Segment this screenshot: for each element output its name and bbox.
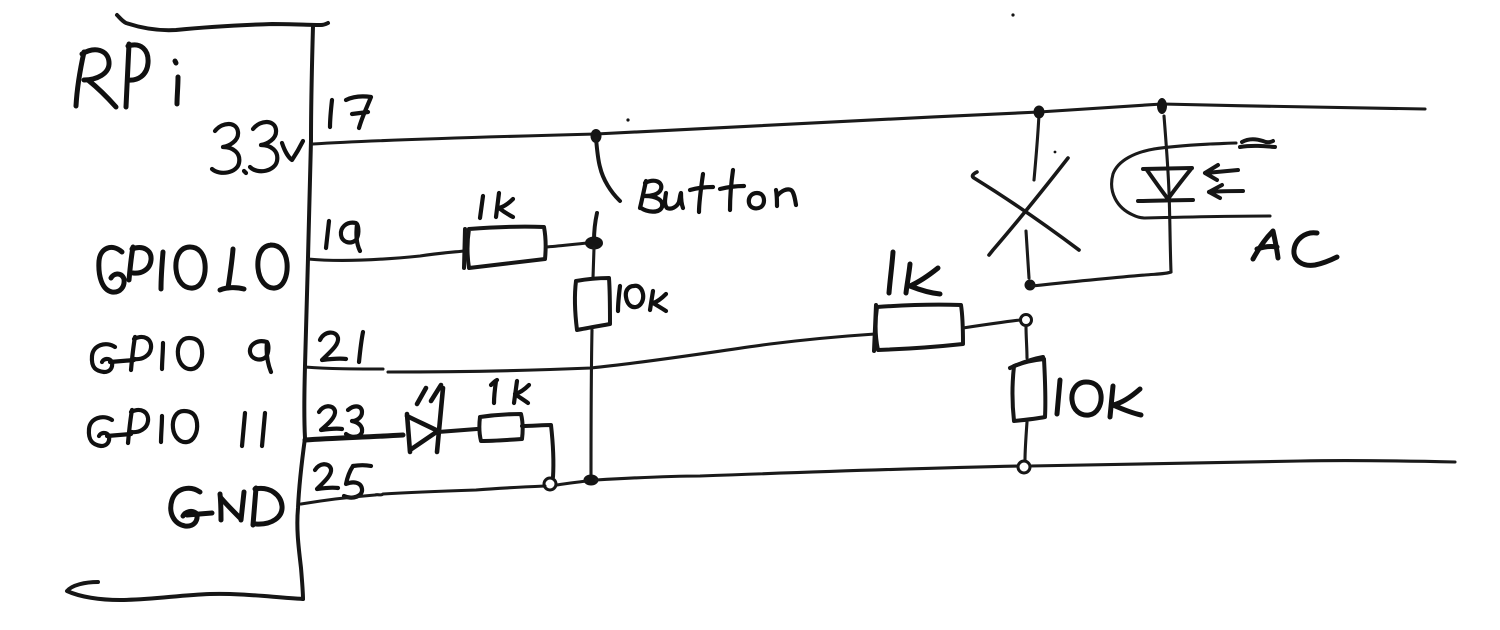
wire node to R2 — [593, 248, 594, 278]
wire elbow node to opto — [1032, 272, 1171, 286]
pin number 23 — [319, 406, 362, 437]
wire X branch from 3.3V — [1034, 114, 1039, 180]
label 10K (R5) — [1057, 380, 1141, 417]
button SW1 — [594, 138, 620, 241]
wire GPIO10 pin19 to R1 — [308, 251, 464, 260]
arrow 1 — [1205, 165, 1238, 180]
junction dot R2/GND — [584, 475, 599, 486]
RPi box outline — [67, 15, 328, 600]
LED inside opto — [1138, 168, 1193, 201]
ink speck — [1011, 13, 1014, 16]
resistor R4 1k — [874, 305, 963, 351]
wire R3 down to GND — [522, 425, 553, 477]
label 1k (R4) — [889, 252, 940, 294]
wire 3.3V pin17 rail — [313, 134, 596, 144]
pin number 19 — [326, 221, 360, 251]
junction dot X branch — [1025, 280, 1036, 291]
junction dot 3.3V/button — [591, 129, 602, 143]
resistor R5 10k — [1010, 357, 1045, 421]
ink speck — [1054, 151, 1057, 154]
label GPIO 9 — [92, 337, 271, 372]
label GPIO 10 — [99, 245, 287, 292]
wire 3.3V rail right end — [1162, 104, 1425, 109]
wire GND rail far right — [1030, 461, 1455, 466]
pin number 17 — [330, 96, 371, 128]
arrow 2 — [1209, 185, 1243, 198]
label GND — [171, 488, 282, 526]
wire node circle to R5 — [1026, 326, 1027, 358]
wire GPIO11 pin23 — [305, 435, 403, 440]
wire R5 to GND rail — [1025, 422, 1027, 460]
label RPi — [76, 44, 178, 107]
junction dot node button/R1/R2 — [585, 237, 603, 250]
wire GPIO9 pin21 stub — [305, 367, 383, 369]
wire GND rail mid — [557, 481, 586, 485]
cross-out X — [973, 158, 1079, 255]
pin number 25 — [315, 464, 371, 497]
node open circle GPIO11/GND — [544, 478, 556, 490]
label 1k (R1) — [480, 193, 513, 218]
resistor R3 1k — [479, 414, 522, 441]
wire 3.3V rail X junction to opto — [1039, 104, 1162, 112]
label AC — [1253, 231, 1337, 265]
optocoupler U1 capsule — [1112, 143, 1270, 218]
resistor R1 1k — [464, 227, 546, 268]
wire R4 to node circle — [963, 320, 1020, 328]
ink speck — [626, 118, 629, 121]
wire 3.3V rail to X junction — [596, 112, 1039, 134]
junction dot opto top — [1157, 98, 1167, 114]
pin number 21 — [320, 332, 363, 362]
wire opto vertical — [1164, 116, 1171, 272]
wire R1 to node — [546, 243, 588, 247]
resistor R2 10k — [575, 278, 610, 330]
label 10k (R2) — [618, 286, 666, 311]
label 1k (R3) — [491, 380, 529, 403]
squiggle mark top right of capsule — [1240, 139, 1275, 147]
wire GND pin25 rail — [301, 486, 545, 504]
junction dot X top — [1034, 106, 1045, 119]
wire D1 to R3 — [438, 429, 477, 432]
label Button — [640, 170, 796, 212]
wire GPIO9 to R4 — [388, 334, 875, 372]
diode D1 — [407, 385, 443, 452]
node open circle R5/GND — [1018, 461, 1030, 473]
wire R2 to GND rail — [591, 330, 592, 480]
label 3.3v — [212, 122, 303, 173]
label GPIO 11 — [89, 410, 265, 446]
node open circle R4/R5 — [1021, 315, 1032, 326]
wire GND rail right — [596, 466, 1018, 480]
